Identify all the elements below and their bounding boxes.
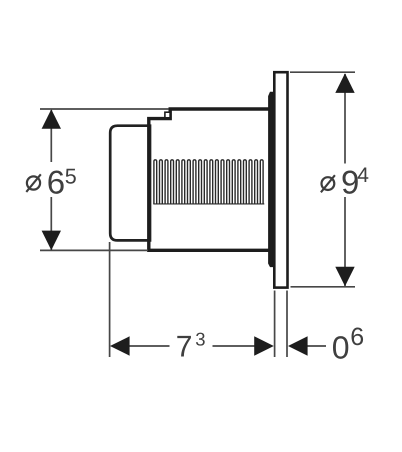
extension line top left (body top) bbox=[40, 108, 169, 110]
knurl base line bbox=[153, 203, 264, 205]
extension line bottom right (flange bottom) bbox=[291, 286, 356, 288]
label ø94 diameter symbol bbox=[321, 175, 335, 192]
extension line top right (flange top) bbox=[290, 71, 355, 73]
dimension leader 06 bbox=[306, 345, 327, 347]
arrow down ø65 bbox=[42, 231, 61, 251]
svg-text:6: 6 bbox=[350, 323, 364, 351]
dimension line ø65 bbox=[50, 110, 52, 250]
svg-text:4: 4 bbox=[357, 164, 369, 187]
arrow down ø94 bbox=[335, 267, 354, 287]
cover plate flange bbox=[274, 72, 287, 287]
extension line below button face bbox=[109, 242, 111, 357]
extension line below flange right bbox=[286, 291, 288, 358]
knurled thread section bbox=[154, 160, 263, 204]
arrow up ø94 bbox=[335, 73, 354, 93]
arrow left 73 bbox=[110, 336, 130, 355]
label 73 bbox=[176, 328, 206, 363]
svg-text:7: 7 bbox=[176, 330, 193, 363]
dimension line 73 bbox=[128, 345, 256, 347]
label 06 bbox=[332, 323, 364, 365]
extension line below flange left bbox=[274, 291, 276, 358]
arrow left 06 bbox=[288, 336, 308, 355]
arrow up ø65 bbox=[42, 109, 61, 129]
svg-text:0: 0 bbox=[332, 329, 350, 365]
arrow right 73 bbox=[254, 336, 274, 355]
label ø65 diameter symbol bbox=[26, 174, 41, 192]
svg-text:6: 6 bbox=[47, 164, 65, 201]
actuator body outline bbox=[149, 109, 269, 250]
label ø94 digits bbox=[341, 164, 369, 201]
svg-text:5: 5 bbox=[65, 165, 77, 189]
svg-text:3: 3 bbox=[195, 328, 205, 349]
label ø65 digits bbox=[47, 164, 77, 201]
alignment notch on body top bbox=[165, 112, 170, 118]
extension line bottom left (body bottom) bbox=[40, 249, 148, 251]
sealing gasket (solid) bbox=[269, 92, 274, 266]
dimension line ø94 bbox=[344, 74, 346, 286]
push button cap bbox=[110, 126, 150, 241]
